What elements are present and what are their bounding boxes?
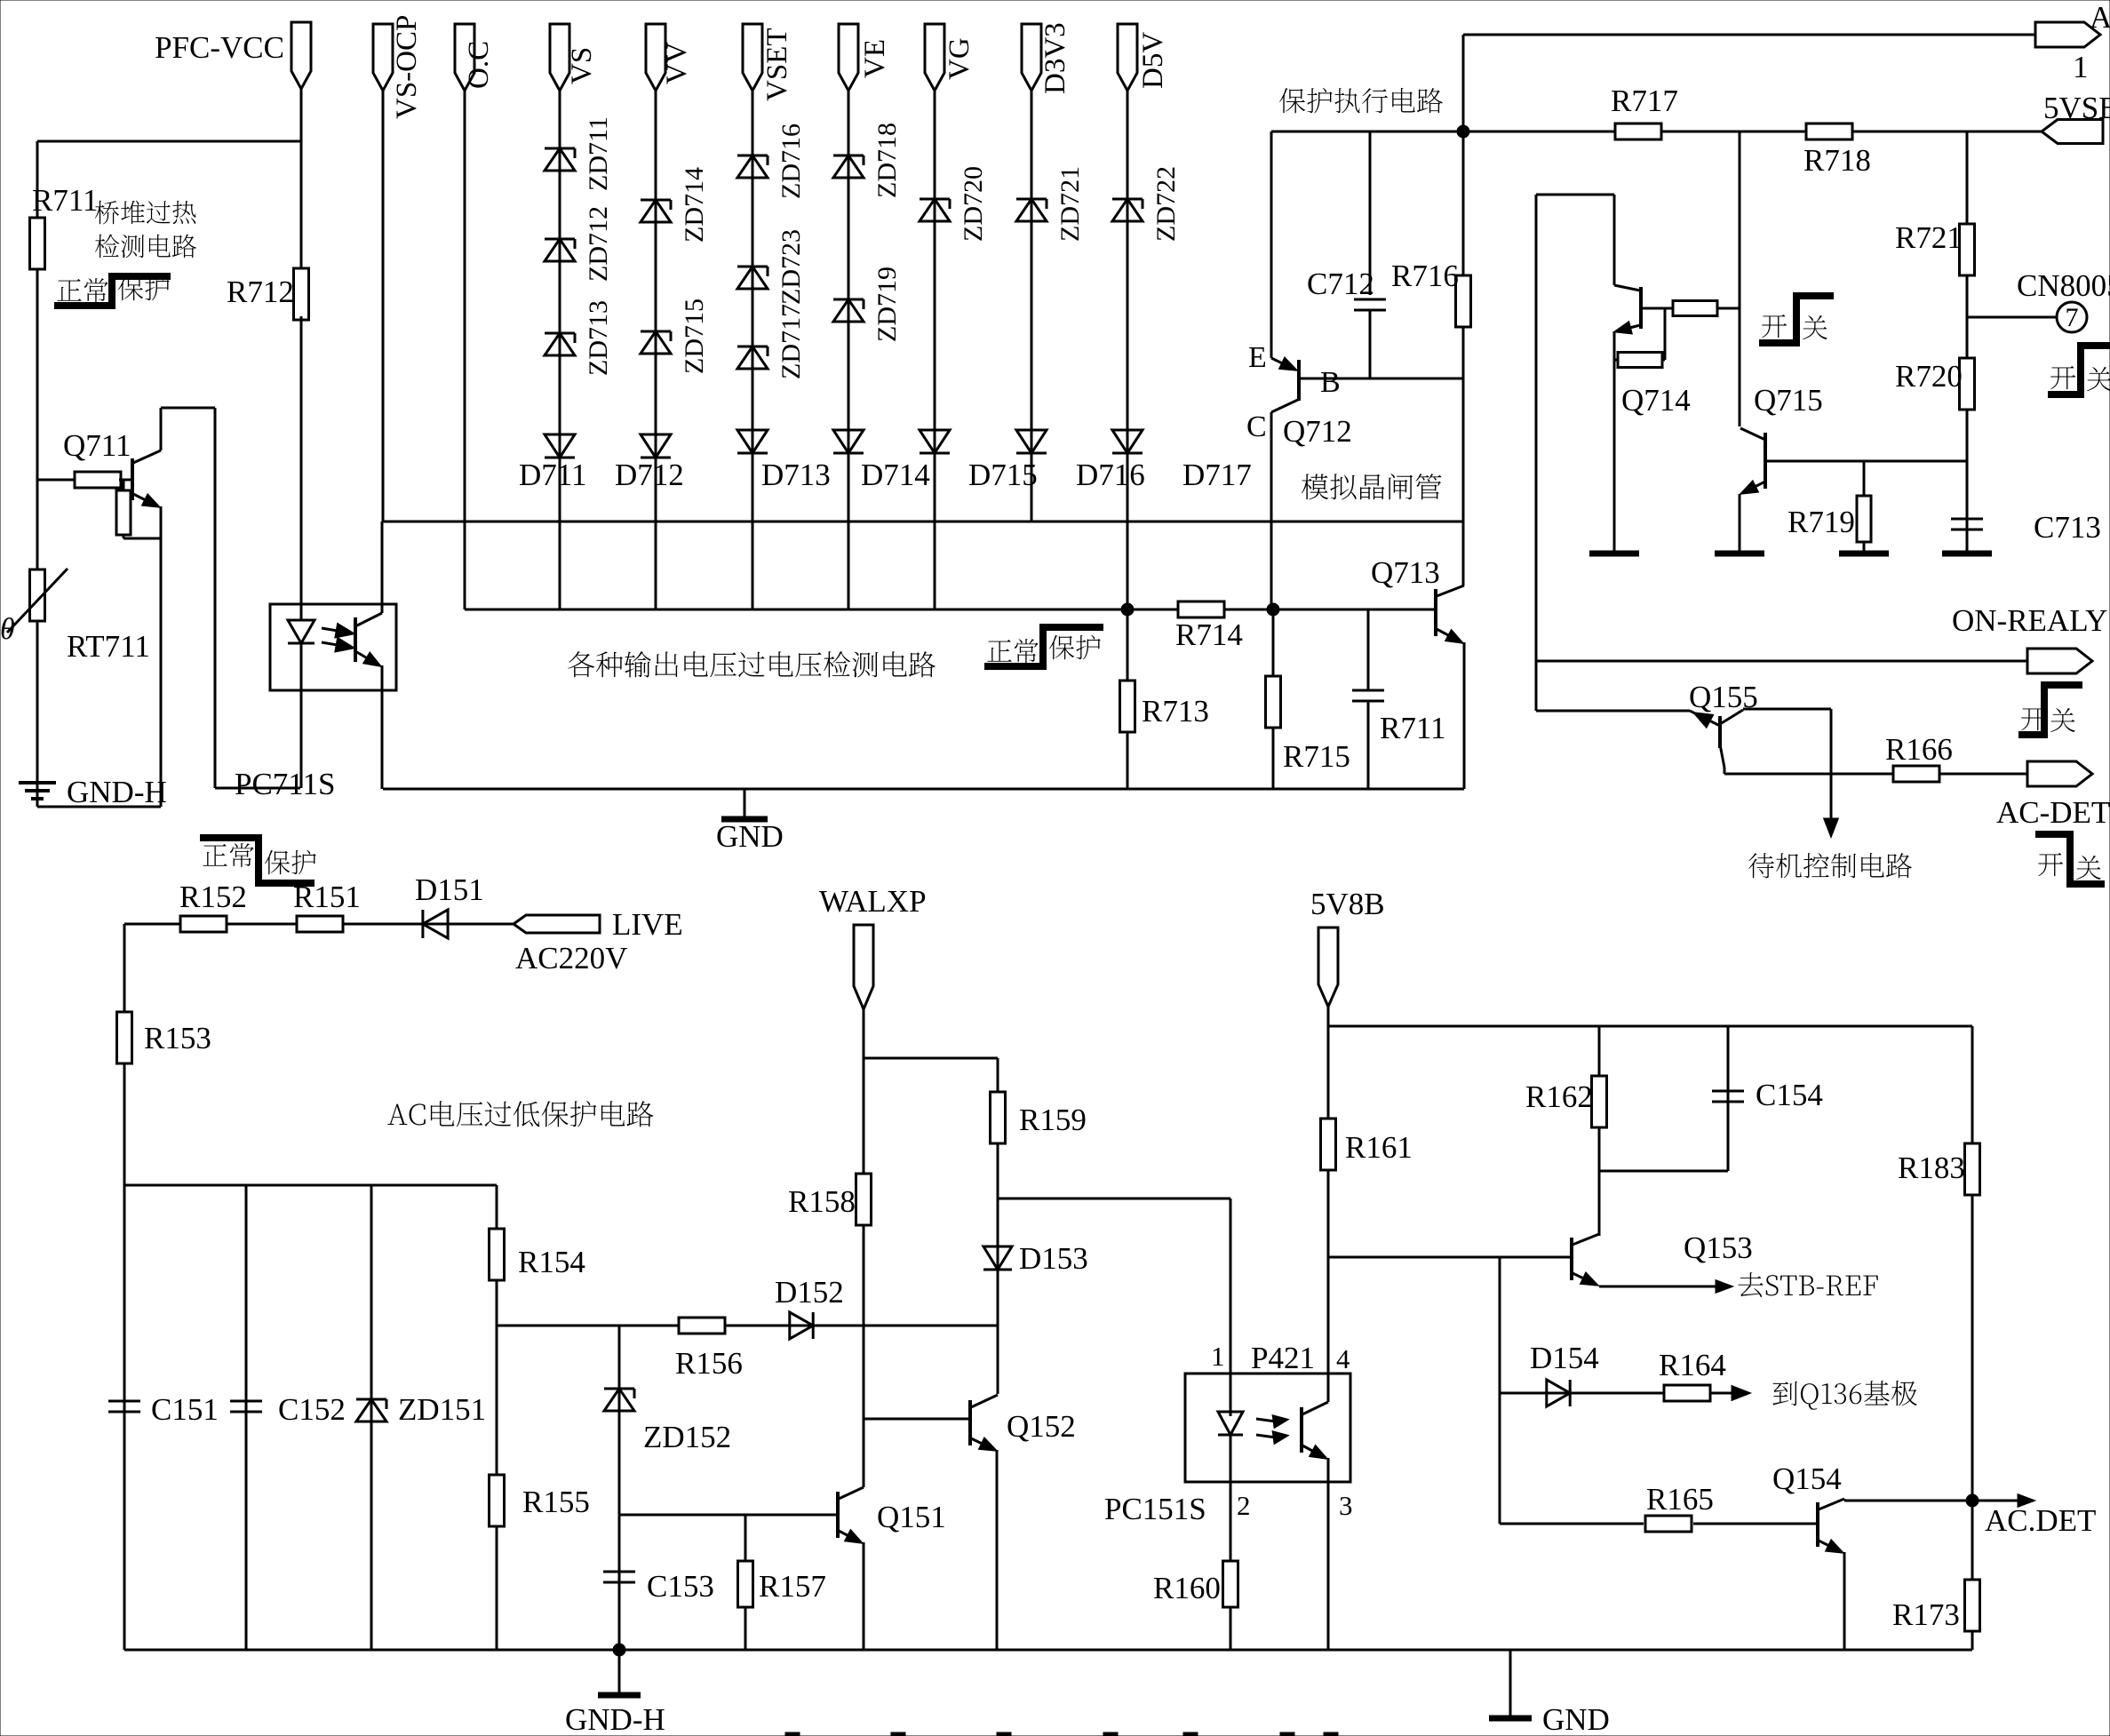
svg-text:C152: C152 [278, 1392, 346, 1427]
svg-text:Q713: Q713 [1371, 555, 1440, 590]
svg-text:Q153: Q153 [1684, 1230, 1753, 1265]
svg-text:C154: C154 [1756, 1078, 1823, 1112]
svg-text:R717: R717 [1611, 84, 1678, 118]
svg-text:VSET: VSET [761, 28, 793, 102]
svg-text:AC.DET: AC.DET [1985, 1503, 2096, 1538]
svg-text:ZD715: ZD715 [680, 299, 709, 374]
svg-text:3: 3 [1339, 1490, 1353, 1521]
svg-text:D712: D712 [615, 458, 684, 492]
svg-text:D711: D711 [519, 458, 586, 492]
svg-text:Q155: Q155 [1689, 680, 1758, 714]
svg-text:D152: D152 [775, 1275, 844, 1310]
svg-text:ZD716: ZD716 [776, 123, 806, 199]
svg-text:ZD713: ZD713 [584, 300, 613, 376]
svg-text:R159: R159 [1019, 1103, 1087, 1137]
svg-text:ZD721: ZD721 [1055, 166, 1085, 242]
svg-text:R716: R716 [1391, 259, 1459, 293]
svg-text:R711: R711 [1380, 711, 1446, 745]
svg-text:Q154: Q154 [1772, 1461, 1842, 1496]
svg-text:P421: P421 [1251, 1341, 1315, 1375]
svg-text:VS-OCP: VS-OCP [391, 15, 423, 119]
svg-text:R152: R152 [179, 880, 247, 914]
svg-text:R164: R164 [1659, 1348, 1726, 1382]
svg-text:ZD722: ZD722 [1151, 166, 1181, 242]
svg-text:R160: R160 [1153, 1571, 1221, 1605]
svg-text:ZD711: ZD711 [584, 116, 613, 191]
svg-text:R718: R718 [1803, 143, 1871, 178]
svg-text:Q712: Q712 [1283, 414, 1352, 449]
svg-text:5VSB: 5VSB [2043, 91, 2110, 125]
svg-text:E: E [1248, 341, 1267, 374]
svg-text:R157: R157 [759, 1569, 826, 1604]
svg-text:VG: VG [944, 37, 975, 80]
svg-text:C: C [1246, 410, 1267, 443]
svg-text:D715: D715 [968, 458, 1038, 492]
svg-text:AC-DET: AC-DET [1996, 795, 2110, 830]
svg-text:Q151: Q151 [877, 1500, 946, 1534]
svg-text:R151: R151 [293, 880, 361, 914]
svg-text:C713: C713 [2034, 510, 2101, 545]
svg-text:VE: VE [859, 39, 891, 78]
svg-text:GND: GND [716, 819, 784, 854]
svg-text:R153: R153 [144, 1021, 211, 1055]
svg-text:R183: R183 [1898, 1151, 1965, 1185]
svg-text:Q711: Q711 [63, 428, 131, 463]
svg-text:B: B [1320, 366, 1341, 399]
svg-text:ZD719: ZD719 [872, 267, 902, 342]
svg-text:D154: D154 [1530, 1341, 1599, 1375]
svg-text:D3V3: D3V3 [1039, 22, 1071, 94]
svg-text:A: A [2090, 0, 2110, 35]
svg-text:Q152: Q152 [1007, 1409, 1076, 1444]
svg-text:GND-H: GND-H [565, 1702, 665, 1736]
svg-text:1: 1 [2073, 50, 2089, 84]
svg-text:C712: C712 [1307, 267, 1374, 301]
svg-text:ZD720: ZD720 [959, 166, 988, 242]
svg-text:R162: R162 [1525, 1079, 1593, 1114]
svg-text:PC151S: PC151S [1104, 1492, 1206, 1526]
svg-text:CN8005: CN8005 [2017, 268, 2110, 303]
svg-text:VV: VV [661, 42, 693, 84]
svg-text:R166: R166 [1885, 732, 1953, 767]
svg-text:R712: R712 [227, 275, 294, 309]
svg-text:5V8B: 5V8B [1310, 887, 1385, 921]
svg-text:2: 2 [1237, 1490, 1251, 1521]
svg-text:C151: C151 [151, 1392, 219, 1427]
svg-text:D153: D153 [1019, 1241, 1088, 1276]
svg-text:D716: D716 [1076, 458, 1145, 492]
svg-text:D713: D713 [761, 458, 831, 492]
svg-text:R165: R165 [1646, 1482, 1714, 1517]
svg-text:D5V: D5V [1137, 32, 1169, 89]
svg-text:R713: R713 [1142, 694, 1209, 729]
svg-text:D717: D717 [1182, 458, 1252, 492]
svg-text:VS: VS [566, 47, 598, 84]
svg-text:ON-REALY: ON-REALY [1952, 603, 2107, 638]
svg-text:R715: R715 [1283, 739, 1350, 774]
svg-text:C153: C153 [647, 1569, 714, 1604]
svg-text:Q714: Q714 [1621, 383, 1691, 418]
svg-text:ZD717: ZD717 [776, 304, 806, 379]
svg-text:R714: R714 [1175, 617, 1243, 652]
svg-text:Q715: Q715 [1754, 383, 1823, 418]
svg-text:R721: R721 [1895, 220, 1963, 255]
svg-text:O.C: O.C [463, 41, 495, 89]
svg-text:PC711S: PC711S [235, 767, 335, 801]
svg-text:D151: D151 [415, 872, 484, 907]
svg-text:LIVE: LIVE [612, 907, 683, 942]
svg-text:GND: GND [1542, 1702, 1610, 1736]
svg-text:ZD718: ZD718 [872, 123, 902, 198]
svg-text:RT711: RT711 [67, 629, 150, 664]
svg-text:ZD723: ZD723 [776, 229, 806, 305]
svg-text:D714: D714 [861, 458, 930, 492]
svg-text:1: 1 [1211, 1341, 1225, 1372]
svg-text:R156: R156 [675, 1346, 743, 1381]
svg-text:ZD152: ZD152 [643, 1420, 731, 1454]
svg-text:R155: R155 [522, 1485, 590, 1519]
svg-text:GND-H: GND-H [67, 775, 167, 809]
svg-text:R173: R173 [1892, 1597, 1960, 1632]
svg-text:AC220V: AC220V [515, 941, 627, 976]
svg-text:R154: R154 [518, 1245, 585, 1279]
svg-text:R719: R719 [1788, 505, 1855, 539]
svg-text:ZD714: ZD714 [680, 167, 709, 243]
svg-text:R158: R158 [788, 1184, 856, 1219]
svg-text:PFC-VCC: PFC-VCC [155, 30, 284, 65]
svg-text:4: 4 [1336, 1343, 1350, 1374]
svg-text:R161: R161 [1345, 1130, 1413, 1165]
svg-text:R720: R720 [1895, 359, 1963, 394]
svg-text:WALXP: WALXP [819, 884, 927, 919]
svg-text:θ: θ [0, 613, 15, 646]
svg-text:7: 7 [2066, 303, 2079, 332]
svg-text:R711: R711 [32, 183, 99, 218]
svg-text:ZD712: ZD712 [584, 206, 613, 282]
svg-text:ZD151: ZD151 [398, 1392, 486, 1427]
